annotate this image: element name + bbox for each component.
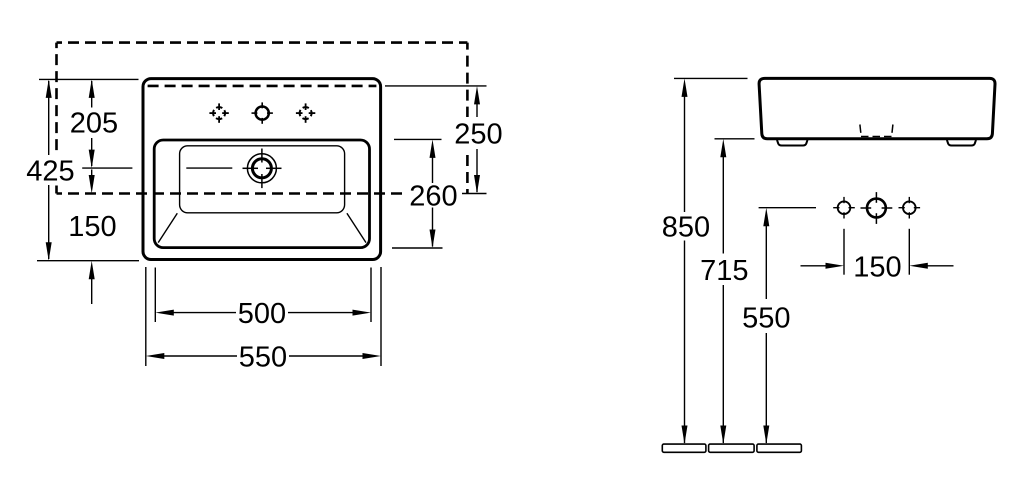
- drain centreline horizontal: [243, 167, 259, 169]
- hidden drain dashed right: [891, 125, 894, 133]
- drain centre extension line: [82, 167, 132, 169]
- drain centreline vertical: [261, 149, 263, 163]
- extension line 550 left: [145, 267, 147, 366]
- svg-text:150: 150: [68, 211, 116, 243]
- svg-text:550: 550: [239, 342, 287, 374]
- svg-text:850: 850: [662, 211, 710, 243]
- basin outer outline (top view): [143, 79, 381, 260]
- extension line bottom left: [37, 260, 139, 262]
- bowl slope diagonal left: [158, 213, 177, 242]
- floor mark centre: [709, 444, 755, 452]
- svg-text:715: 715: [700, 255, 748, 287]
- dimension 150 upper outside arrow: [89, 170, 95, 194]
- bowl rim: [154, 140, 369, 248]
- floor mark left: [662, 444, 706, 452]
- dimension 850 line: [682, 78, 688, 444]
- svg-text:500: 500: [238, 298, 286, 330]
- svg-text:150: 150: [853, 251, 901, 283]
- floor mark right: [757, 444, 802, 452]
- extension line 550r top: [759, 207, 816, 209]
- extension line 250 bottom: [462, 193, 487, 195]
- bowl slope diagonal right: [347, 213, 366, 242]
- front tap hole centre: [861, 192, 893, 224]
- hidden drain dashed bottom: [861, 136, 892, 138]
- svg-text:425: 425: [26, 155, 74, 187]
- front view left foot: [777, 140, 808, 146]
- extension line 250 top: [385, 85, 487, 87]
- front tap hole left: [833, 197, 855, 219]
- extension line 260 top: [394, 138, 442, 140]
- extension line 500 left: [154, 268, 156, 323]
- extension line 715 top: [715, 138, 755, 140]
- extension line 260 bottom: [392, 247, 443, 249]
- bowl bottom: [180, 146, 345, 213]
- optional tap hole left: [209, 103, 228, 122]
- extension line 550 right: [380, 267, 382, 366]
- extension line below hole left: [843, 229, 845, 275]
- dimension 150 outside arrow: [89, 261, 95, 304]
- dimension 715 line: [720, 139, 726, 444]
- extension line 850 top: [674, 77, 748, 79]
- dimension 260 line: [430, 139, 436, 248]
- drain outer circle: [247, 154, 276, 183]
- basin rear dashed line: [148, 85, 377, 88]
- dimension 150 left arrow: [801, 263, 845, 269]
- dimension 500 line: [155, 310, 371, 316]
- front view body outline: [759, 78, 995, 138]
- hidden drain dashed left: [859, 125, 862, 133]
- front view right foot: [947, 140, 976, 146]
- centre reference dashed line (top view): [57, 192, 407, 195]
- drain inner circle: [252, 159, 271, 178]
- svg-text:250: 250: [454, 119, 502, 151]
- dimension 550 line: [146, 353, 381, 359]
- svg-text:205: 205: [70, 108, 118, 140]
- installation clearance dashed outline (top view): [57, 41, 468, 44]
- dimension 150 right arrow: [909, 263, 953, 269]
- svg-text:260: 260: [409, 181, 457, 213]
- extension line top left: [39, 78, 139, 80]
- centre tap hole: [252, 102, 273, 123]
- extension line 500 right: [370, 268, 372, 323]
- overflow line: [186, 167, 232, 169]
- optional tap hole right: [296, 103, 315, 122]
- extension line below hole right: [908, 229, 910, 275]
- dimension 205 line: [89, 79, 95, 168]
- front tap hole right: [899, 197, 921, 219]
- dimension 550r line: [763, 208, 769, 444]
- svg-text:550: 550: [742, 302, 790, 334]
- dimension 250 line: [474, 86, 480, 194]
- dimension 425 line: [46, 79, 52, 260]
